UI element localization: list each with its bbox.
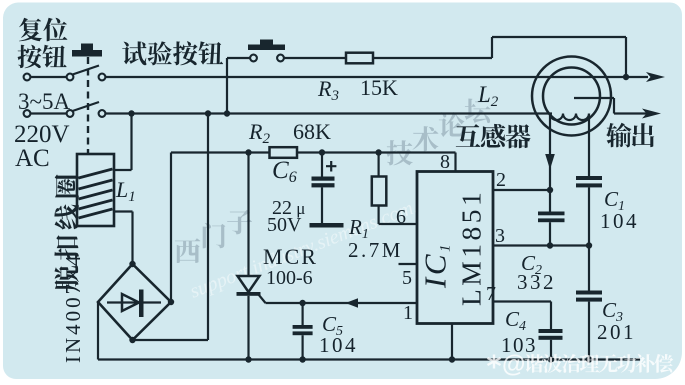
svg-text:50V: 50V bbox=[267, 214, 302, 236]
wire R2 row bbox=[171, 153, 456, 172]
svg-text:332: 332 bbox=[517, 270, 556, 294]
gate arrow bbox=[346, 298, 359, 308]
reset button actuator bbox=[81, 44, 93, 51]
switch pole 1 bbox=[31, 76, 67, 78]
svg-text:IN4007×4: IN4007×4 bbox=[61, 252, 85, 363]
wire bridge bottom to row2 bbox=[133, 114, 209, 341]
mechanical link dashed bbox=[87, 57, 89, 154]
wire gate to pin1 bbox=[266, 302, 418, 304]
wire test button left drop bbox=[227, 58, 250, 114]
svg-text:@: @ bbox=[502, 351, 525, 378]
junction dots bbox=[128, 110, 134, 116]
resistor R3 bbox=[346, 53, 373, 64]
capacitor C1 bbox=[576, 176, 602, 180]
wire R3 to bypass bbox=[373, 37, 626, 77]
thyristor MCR100-6 bbox=[247, 153, 249, 277]
pin 5 stub bbox=[399, 263, 418, 265]
watermark 技术论坛 bbox=[387, 140, 413, 165]
capacitor C2 bbox=[549, 190, 551, 212]
label 试验按钮 bbox=[122, 41, 223, 65]
svg-text:100-6: 100-6 bbox=[266, 267, 313, 289]
secondary winding bumps bbox=[550, 114, 589, 121]
label 复位 bbox=[19, 18, 67, 42]
svg-text:8: 8 bbox=[440, 151, 450, 173]
capacitor C5 bbox=[302, 303, 304, 325]
svg-text:104: 104 bbox=[600, 209, 639, 233]
label 互感器 bbox=[456, 124, 531, 148]
svg-text:201: 201 bbox=[597, 320, 636, 344]
svg-text:7: 7 bbox=[486, 283, 496, 305]
trip coil L1 bbox=[77, 154, 114, 226]
wire: live row L (row1) bbox=[105, 76, 648, 78]
label 输出 bbox=[606, 123, 654, 148]
test button bbox=[260, 40, 273, 46]
svg-text:LM1851: LM1851 bbox=[456, 189, 487, 306]
resistor R1 bbox=[378, 153, 380, 177]
wire coil to bridge bbox=[114, 212, 133, 265]
svg-text:68K: 68K bbox=[293, 119, 331, 144]
pin 7 wire bbox=[493, 300, 551, 302]
svg-text:3: 3 bbox=[495, 225, 505, 247]
svg-text:AC: AC bbox=[15, 145, 50, 172]
svg-text:2: 2 bbox=[496, 169, 506, 191]
wire row2 to coil bbox=[114, 114, 132, 171]
bridge rectifier IN4007x4 bbox=[98, 264, 171, 340]
pin 2 wire bbox=[493, 189, 550, 191]
capacitor C4 bbox=[550, 302, 552, 330]
IC ground lead bbox=[451, 324, 453, 360]
svg-text:MCR: MCR bbox=[263, 244, 318, 269]
secondary lead 2 bbox=[588, 114, 590, 177]
svg-text:15K: 15K bbox=[360, 75, 398, 100]
wire bridge right to R2 row bbox=[170, 153, 172, 303]
switch pole 2 bbox=[31, 112, 67, 114]
wire button to R3 bbox=[284, 57, 346, 59]
svg-text:1: 1 bbox=[403, 302, 413, 324]
svg-text:220V: 220V bbox=[14, 121, 70, 148]
capacitor C6 electrolytic bbox=[321, 153, 323, 177]
label 脱扣线圈 (rotated) bbox=[54, 175, 78, 291]
capacitor C3 bbox=[576, 291, 602, 295]
wire: neutral jog over toroid bbox=[574, 98, 648, 114]
svg-text:6: 6 bbox=[396, 206, 406, 228]
watermark icon bbox=[488, 355, 501, 369]
watermark 西门子 bbox=[175, 238, 201, 263]
ground rail bbox=[98, 358, 640, 360]
svg-text:5: 5 bbox=[402, 267, 412, 289]
secondary lead 1 with arrow bbox=[549, 114, 551, 191]
output arrow row1 bbox=[646, 72, 665, 82]
op IC U1 LM1851 bbox=[417, 172, 493, 324]
svg-text:2.7M: 2.7M bbox=[348, 238, 403, 262]
wire bridge left to rail bbox=[97, 302, 99, 360]
label 按钮 bbox=[18, 45, 67, 69]
resistor R2 bbox=[270, 147, 298, 158]
svg-text:104: 104 bbox=[319, 333, 358, 357]
pin 3 wire bbox=[493, 244, 589, 246]
output arrow row2 bbox=[642, 109, 661, 119]
current transformer L2 toroid bbox=[532, 57, 611, 136]
wire: neutral row N (row2) bbox=[105, 112, 552, 114]
